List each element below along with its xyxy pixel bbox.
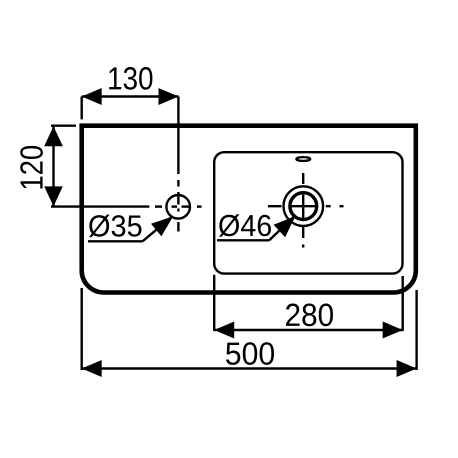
dimension 120 text [20,146,43,189]
sink outer outline [82,126,416,293]
drain horizontal centerline [268,205,344,207]
dimension 500 left arrow [82,360,102,377]
faucet horizontal centerline [155,205,202,207]
faucet hole circle [166,195,190,219]
dimension 500 text [226,342,274,365]
dimension 280 right extension [402,276,404,331]
dimension 280 left arrow [214,322,234,339]
dimension 280 left extension [213,275,215,331]
dimension 280 right arrow [383,322,403,339]
dimension 130 text [109,67,152,90]
dimension 280 text [286,304,333,327]
label Ø35 underline [88,240,143,242]
dimension 120 bottom arrow [44,186,63,206]
dimension 500 line [82,367,417,369]
dimension 130 right arrow [159,88,179,105]
dimension 120 line [52,126,54,206]
label Ø46 text [219,214,271,237]
label Ø46 arrowhead [274,216,296,237]
dimension 500 right extension [415,290,417,370]
dimension 120 top extension [51,124,76,126]
dimension 130 line [82,95,179,97]
label Ø35 leader [143,216,173,241]
overflow slot [296,157,310,161]
label Ø35 arrowhead [151,216,173,236]
dimension 280 line [214,329,403,331]
label Ø46 underline [217,239,269,241]
faucet vertical centerline [177,97,179,232]
basin inner bowl [214,152,402,273]
dimension 120 bottom extension / faucet horiz centerline [51,205,149,207]
drain vertical centerline [302,173,304,248]
dimension 500 right arrow [397,360,417,377]
dimension 130 left arrow [82,88,102,105]
dimension 130 extension line left [80,97,82,120]
drain inner circle [290,193,317,220]
label Ø35 text [89,215,141,238]
label Ø46 leader [269,217,294,241]
drain outer circle [284,186,324,226]
dimension 120 top arrow [44,126,63,146]
dimension 500 left extension [80,288,82,370]
